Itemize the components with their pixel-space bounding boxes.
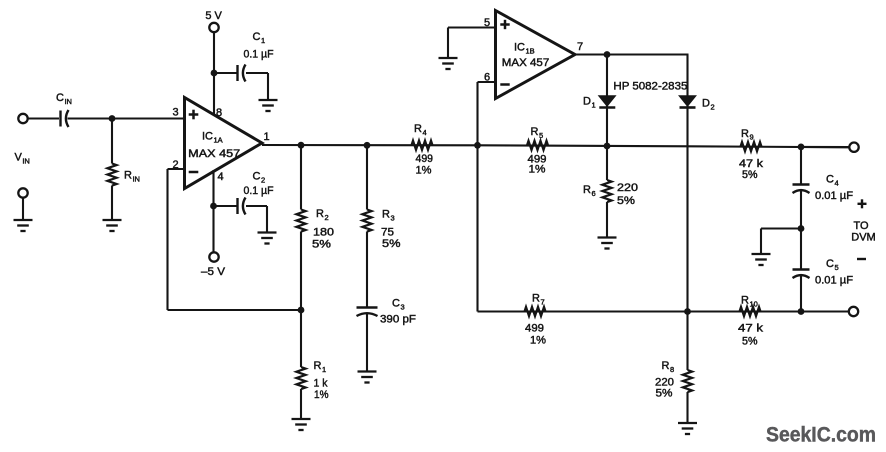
svg-text:0.01 µF: 0.01 µF [815, 190, 853, 202]
pin 3 label [172, 107, 178, 119]
ground under VIN terminal [14, 220, 33, 231]
svg-text:5 V: 5 V [205, 10, 222, 22]
ground under C3 [358, 372, 377, 383]
svg-text:TO: TO [853, 220, 869, 232]
label R3 [382, 209, 395, 223]
svg-text:5%: 5% [617, 195, 635, 207]
node mid junction [798, 225, 805, 232]
resistor R1 [296, 310, 305, 419]
label C5 value [815, 275, 853, 287]
wire C1 to ground [246, 73, 268, 100]
wire main line [262, 145, 850, 147]
pin 2 label [172, 159, 178, 171]
wire 5V to pin8 [213, 32, 215, 115]
node C5 bottom junction [798, 308, 805, 315]
svg-text:390 pF: 390 pF [380, 314, 416, 326]
op-amp IC1B triangle [496, 11, 576, 99]
svg-text:HP 5082-2835: HP 5082-2835 [613, 81, 687, 93]
pin 5 label [484, 17, 490, 29]
label R9 tol [742, 169, 758, 181]
wire mid to C5 [800, 229, 802, 270]
ground at pin5 [439, 58, 458, 69]
svg-text:5%: 5% [312, 239, 331, 251]
pin 1 label [263, 131, 269, 143]
node C4 top junction [798, 144, 805, 151]
wire pin2 down [166, 169, 168, 310]
svg-text:47 k: 47 k [738, 323, 764, 335]
label R8 value [655, 377, 674, 389]
svg-text:0.01 µF: 0.01 µF [815, 275, 853, 287]
IC1B minus input [500, 83, 509, 86]
label C4 value [815, 190, 853, 202]
svg-text:1%: 1% [529, 164, 546, 176]
svg-text:MAX 457: MAX 457 [188, 148, 240, 160]
label R4 value [416, 153, 434, 165]
svg-text:–5 V: –5 V [201, 266, 226, 278]
label R5 [531, 126, 544, 140]
label D1 [583, 96, 596, 110]
label R8 [662, 360, 675, 374]
ground under RIN [103, 220, 122, 231]
label R4 [414, 123, 427, 137]
output terminal top [849, 143, 858, 152]
label R8 tol [656, 388, 673, 400]
label HP 5082-2835 [613, 81, 687, 93]
svg-text:1 k: 1 k [314, 378, 328, 390]
label R3 tol [382, 238, 401, 250]
pin 6 label [484, 72, 490, 84]
label R10 [741, 295, 758, 309]
pin 8 label [216, 107, 222, 119]
input terminal VIN [18, 114, 27, 123]
wire CIN to pin3 [68, 117, 185, 119]
svg-text:499: 499 [525, 323, 544, 335]
label R6 tol [617, 195, 635, 207]
capacitor C4 [793, 185, 810, 194]
capacitor CIN [61, 110, 69, 127]
wire mid to ground [761, 229, 801, 255]
label C1 [253, 31, 266, 45]
svg-text:1%: 1% [314, 389, 329, 401]
wire C5 to bottom [800, 275, 802, 312]
svg-text:4: 4 [217, 171, 223, 183]
label minus [857, 258, 866, 260]
ground terminal below VIN [18, 188, 27, 220]
label R1 tol [314, 389, 329, 401]
resistor R3 [362, 145, 371, 307]
label C5 [826, 258, 839, 272]
resistor R7 [525, 307, 546, 316]
label R4 tol [416, 165, 432, 177]
label R2 [316, 208, 329, 222]
node R3 top [364, 142, 371, 149]
svg-text:5%: 5% [742, 169, 758, 181]
svg-text:1%: 1% [416, 165, 432, 177]
wire to C2 [214, 205, 237, 207]
wire C4 to mid [800, 190, 802, 229]
label TO [853, 220, 869, 232]
ground at mid [752, 254, 771, 265]
wire feedback bottom [168, 309, 302, 311]
ground under R8 [678, 423, 697, 434]
IC1A minus input [189, 171, 199, 174]
resistor R4 [412, 141, 433, 150]
label R6 value [617, 182, 638, 194]
label -5V [201, 266, 226, 278]
svg-text:MAX 457: MAX 457 [502, 57, 550, 69]
label C2 value [244, 185, 274, 197]
svg-text:75: 75 [381, 227, 394, 239]
resistor R8 [683, 312, 692, 424]
label R10 value [738, 323, 764, 335]
wire D1 branch [606, 55, 608, 147]
label CIN [56, 92, 72, 106]
resistor R5 [527, 141, 548, 150]
label IC1A MAX 457 [188, 148, 240, 160]
label R5 value [528, 154, 547, 166]
label RIN [124, 170, 140, 184]
label R1 value [314, 378, 328, 390]
wire C3 to ground [366, 313, 368, 372]
wire pin4 down [212, 170, 214, 206]
resistor R2 [296, 145, 305, 310]
label R7 [532, 293, 545, 307]
label R3 value [381, 227, 394, 239]
wire pin6 stub [478, 81, 496, 83]
output terminal bottom [849, 307, 858, 316]
svg-text:0.1 µF: 0.1 µF [244, 49, 274, 61]
diode D2 [680, 96, 696, 108]
node pin4 C2 junction [210, 203, 217, 210]
IC1B plus input [500, 20, 509, 29]
label R6 [583, 184, 596, 198]
wire pin6 riser [476, 82, 478, 312]
IC1A plus input [189, 110, 199, 120]
op-amp IC1A triangle [185, 98, 263, 189]
wire to C4 [800, 147, 802, 185]
label R9 value [739, 158, 764, 170]
capacitor C2 [238, 198, 246, 215]
ground under C2 [258, 233, 277, 244]
wire pin5 stub [448, 28, 496, 59]
label C3 value [380, 314, 416, 326]
label R7 value [525, 323, 544, 335]
capacitor C5 [793, 270, 810, 279]
wire to C1 [214, 72, 237, 74]
resistor R9 [741, 142, 762, 151]
svg-text:7: 7 [577, 41, 583, 53]
label R7 tol [530, 335, 546, 347]
label IC1A [202, 131, 223, 145]
node D1 main junction [604, 143, 611, 150]
svg-text:5%: 5% [382, 238, 401, 250]
label C2 [253, 171, 266, 185]
label C4 [826, 174, 839, 188]
label 5V [205, 10, 222, 22]
label R2 tol [312, 239, 331, 251]
svg-text:1: 1 [263, 131, 269, 143]
5V terminal [209, 23, 218, 32]
node R8 junction [684, 308, 691, 315]
label R10 tol [742, 336, 758, 348]
label R1 [314, 360, 327, 374]
pin 7 label [577, 41, 583, 53]
label DVM [851, 232, 876, 244]
diode D1 [599, 96, 615, 108]
svg-text:180: 180 [313, 227, 334, 239]
label plus [858, 199, 867, 208]
label VIN [15, 152, 30, 166]
wire to -5V [212, 206, 214, 253]
svg-text:3: 3 [172, 107, 178, 119]
label IC1B [514, 42, 535, 56]
-5V terminal [209, 252, 218, 261]
wire pin2 stub [168, 168, 185, 170]
label D2 [702, 98, 715, 112]
capacitor C1 [238, 65, 246, 82]
node R2 top [298, 142, 305, 149]
node input junction [109, 115, 116, 122]
label IC1B MAX 457 [502, 57, 550, 69]
label C3 [392, 298, 405, 312]
node feedback junction [298, 307, 305, 314]
ground under R1 [292, 419, 311, 430]
wire D2 branch [686, 55, 688, 312]
svg-text:8: 8 [216, 107, 222, 119]
label R9 [741, 128, 754, 142]
watermark SeekIC.com [766, 424, 876, 447]
svg-text:5%: 5% [656, 388, 673, 400]
svg-text:SeekIC.com: SeekIC.com [766, 424, 876, 447]
svg-text:0.1 µF: 0.1 µF [244, 185, 274, 197]
svg-text:220: 220 [617, 182, 638, 194]
node pin6 riser junction [474, 142, 481, 149]
svg-text:499: 499 [416, 153, 434, 165]
svg-text:5%: 5% [742, 336, 758, 348]
wire to output top [801, 146, 849, 148]
wire bottom line [478, 310, 850, 312]
resistor RIN [107, 119, 116, 221]
ground under C1 [259, 100, 278, 111]
node pin7 junction [604, 51, 611, 58]
ground under R6 [598, 238, 617, 249]
wire pin7 output [575, 53, 689, 55]
resistor R10 [740, 307, 761, 316]
label C1 value [244, 49, 274, 61]
wire input to CIN [28, 117, 59, 119]
node 5V C1 junction [211, 70, 218, 77]
pin 4 label [217, 171, 223, 183]
resistor R6 [602, 146, 611, 238]
svg-text:1%: 1% [530, 335, 546, 347]
capacitor C3 [357, 308, 378, 317]
svg-text:DVM: DVM [851, 232, 876, 244]
wire C2 to ground [246, 206, 267, 233]
label R2 value [313, 227, 334, 239]
label R5 tol [529, 164, 546, 176]
